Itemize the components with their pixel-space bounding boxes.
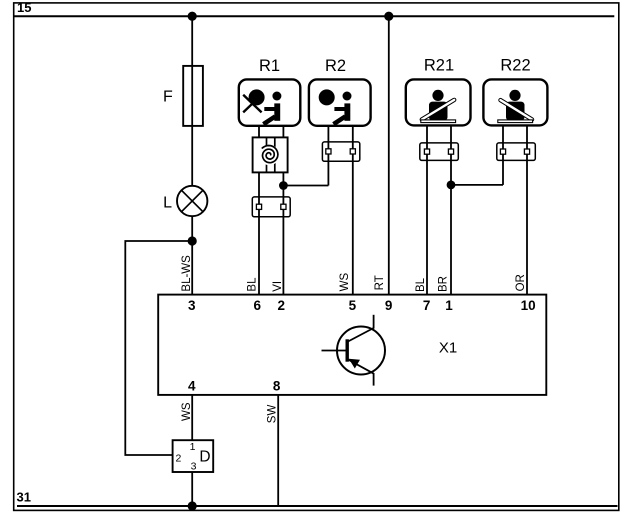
svg-text:31: 31 (17, 489, 31, 504)
wire: branch from lamp node to connector D pin 2 (125, 241, 192, 455)
belt switch R22 (buckled person icon) (483, 79, 547, 125)
svg-text:BL: BL (415, 277, 427, 292)
svg-text:5: 5 (349, 298, 357, 313)
wire: junction to R22 left wire (451, 184, 503, 186)
svg-text:4: 4 (188, 378, 196, 393)
wire: X1 pin 8 (SW) to bus 31 (277, 395, 279, 506)
connector block below R2 (322, 142, 359, 161)
svg-text:R21: R21 (424, 56, 454, 74)
wire label BL (pin 6) (247, 277, 259, 292)
pin 8 of X1 (273, 378, 281, 393)
airbag unit R2 (passenger airbag icon) (309, 79, 371, 125)
svg-text:VI: VI (272, 281, 284, 292)
svg-text:RT: RT (374, 275, 386, 290)
wire label SW (pin 8) (267, 405, 279, 424)
igniter coil (squib) of R1 (253, 137, 288, 172)
wire: R2 right pin to X1 pin 5 (WS) (352, 126, 354, 295)
svg-text:BL-WS: BL-WS (181, 255, 193, 292)
label X1 (439, 340, 457, 357)
label F (163, 88, 173, 105)
connector D (173, 440, 214, 472)
wire: R22 right pin to X1 pin 10 (OR) (526, 125, 528, 294)
svg-text:WS: WS (339, 273, 351, 292)
wire: R1 to igniter, right pin (282, 126, 284, 138)
junction node: R1 right wire / R2 left wire (279, 181, 288, 190)
svg-text:6: 6 (253, 298, 261, 313)
svg-text:BR: BR (437, 276, 449, 292)
wire: bus 15 to fuse F and lamp L (191, 16, 193, 186)
svg-text:1: 1 (445, 298, 453, 313)
junction on bus 31 below connector D (188, 501, 197, 510)
wire label BL-WS (pin 3) (181, 255, 193, 292)
junction on bus 15 at pin 9 feed (384, 12, 393, 21)
svg-text:15: 15 (17, 0, 31, 15)
connector block below R21 (420, 143, 459, 161)
transistor inside X1 (PNP driver) (322, 315, 386, 386)
wire label BR (pin 1) (437, 276, 449, 292)
wire label WS (pin 4) (181, 402, 193, 421)
svg-text:R1: R1 (259, 57, 280, 75)
svg-text:9: 9 (385, 298, 393, 313)
svg-text:10: 10 (521, 298, 536, 313)
wire: X1 pin 4 (WS) to connector D pin 1 (191, 395, 193, 440)
pin 7 of X1 (423, 298, 431, 313)
wire: bus 15 to X1 pin 9 (RT) (388, 16, 390, 294)
wire: R1 to igniter, left pin (258, 126, 260, 138)
junction node: lamp / pin 3 / connector D branch (188, 236, 197, 245)
connector block below R22 (497, 143, 536, 161)
svg-text:8: 8 (273, 378, 281, 393)
control unit X1 (158, 295, 546, 395)
wire label VI (pin 2) (272, 281, 284, 292)
svg-text:X1: X1 (439, 340, 457, 357)
svg-text:OR: OR (515, 274, 527, 291)
wire: igniter to X1 pin 6, left (BL) (258, 172, 260, 294)
label R21 (424, 56, 454, 74)
svg-text:L: L (163, 195, 172, 212)
label R2 (325, 57, 346, 75)
wire: R21 right pin to X1 pin 1 (BR) (450, 125, 452, 294)
bus 31 (ground rail) (17, 505, 618, 507)
airbag unit R1 (driver airbag icon, crossed) (239, 79, 300, 125)
pin 9 of X1 (385, 298, 393, 313)
lamp L (warning lamp) (177, 186, 207, 216)
svg-text:1: 1 (190, 441, 196, 453)
svg-text:R2: R2 (325, 57, 346, 75)
bus 15 (battery positive rail) (14, 15, 615, 17)
wire label OR (pin 10) (515, 274, 527, 291)
svg-text:WS: WS (181, 402, 193, 421)
label L (163, 195, 172, 212)
label 15 (17, 0, 31, 15)
pin 5 of X1 (349, 298, 357, 313)
label 31 (17, 489, 31, 504)
junction node: R21 right wire / R22 left wire (447, 181, 456, 190)
label R1 (259, 57, 280, 75)
wire: connector D pin 3 to bus 31 (191, 472, 193, 506)
connector block below R1 (252, 197, 290, 217)
pin 3 of X1 (188, 298, 196, 313)
svg-text:7: 7 (423, 298, 431, 313)
wire label WS (pin 5) (339, 273, 351, 292)
svg-text:F: F (163, 88, 173, 105)
fuse F (183, 66, 203, 126)
svg-text:SW: SW (267, 405, 279, 424)
svg-text:2: 2 (277, 298, 285, 313)
svg-text:D: D (199, 449, 210, 466)
wire: lamp L to X1 pin 3 (BL-WS) (191, 216, 193, 294)
svg-text:BL: BL (247, 277, 259, 292)
wire: R21 left pin to X1 pin 7 (BL) (426, 125, 428, 294)
svg-text:3: 3 (188, 298, 196, 313)
wire: R2 left pin down to junction with R1 (327, 126, 329, 186)
pin 1 of X1 (445, 298, 453, 313)
label R22 (500, 56, 530, 74)
belt switch R21 (buckled person icon) (406, 79, 471, 125)
wire: R22 left pin down to junction with R21 (502, 125, 504, 184)
pin 4 of X1 (188, 378, 196, 393)
svg-text:3: 3 (191, 461, 197, 473)
svg-text:R22: R22 (500, 56, 530, 74)
pin 10 of X1 (521, 298, 536, 313)
pin 6 of X1 (253, 298, 261, 313)
wire label BL (pin 7) (415, 277, 427, 292)
pin 2 of X1 (277, 298, 285, 313)
junction on bus 15 at fuse feed (188, 12, 197, 21)
wire: igniter to X1 pin 2, right (VI) (282, 172, 284, 294)
wire: junction to R2 left wire (283, 185, 328, 187)
wire label RT (pin 9) (374, 275, 386, 290)
svg-text:2: 2 (175, 452, 181, 464)
